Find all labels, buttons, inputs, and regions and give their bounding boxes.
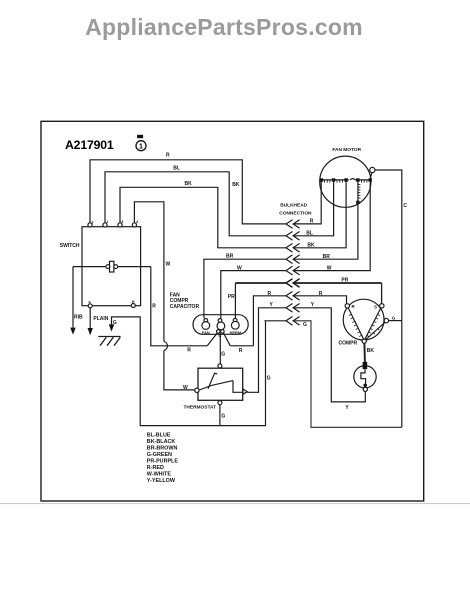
svg-text:R: R (166, 153, 170, 159)
svg-text:R: R (152, 303, 156, 309)
thermostat bottom terminal (218, 401, 222, 405)
wire R1 right: bulkhead to fan motor (293, 181, 321, 224)
svg-text:COMPR: COMPR (339, 340, 358, 346)
wire G: bulkhead left run (264, 320, 286, 322)
svg-text:3: 3 (121, 220, 123, 224)
compressor terminal R (345, 304, 349, 308)
switch bottom terminal F (88, 304, 92, 308)
svg-text:W: W (183, 385, 188, 391)
wire G: thermostat bottom down (219, 405, 221, 426)
svg-text:W: W (166, 261, 171, 267)
svg-text:1: 1 (139, 144, 143, 151)
svg-text:Y: Y (311, 302, 315, 308)
diagram border frame (41, 121, 424, 501)
svg-text:PR: PR (228, 294, 235, 300)
switch bottom terminal H (131, 304, 135, 308)
compressor run winding (348, 308, 363, 339)
wire R: switch element right, down to capacitor common (151, 267, 208, 346)
svg-text:2: 2 (91, 220, 93, 224)
wire PR: capacitor HERM to bulkhead (234, 283, 236, 318)
svg-text:AppliancePartsPros.com: AppliancePartsPros.com (85, 14, 363, 40)
compressor terminal labels (352, 304, 396, 320)
svg-text:C: C (403, 203, 407, 209)
wire W right (293, 181, 370, 271)
switch terminal 4 (132, 223, 136, 227)
svg-text:BK-BLACK: BK-BLACK (147, 439, 176, 445)
switch terminal 2 (88, 223, 92, 227)
wire BK: switch term3 to bulkhead (120, 187, 286, 248)
wire BK right (293, 181, 346, 248)
wire PLAIN: from switch bottom-left terminal down (89, 308, 91, 328)
compressor M2 (343, 299, 384, 340)
svg-text:BK: BK (307, 242, 315, 248)
svg-text:G: G (303, 322, 307, 328)
wire from capacitor common left diagonal (207, 333, 217, 346)
wire BR right (293, 204, 358, 260)
svg-text:BK: BK (367, 348, 375, 354)
thermostat left terminal (195, 388, 199, 392)
svg-text:Y: Y (345, 405, 349, 411)
thermostat right terminal (243, 389, 247, 394)
overload protector OL (354, 366, 376, 388)
svg-text:CONNECTION: CONNECTION (279, 211, 312, 217)
svg-text:G: G (221, 413, 225, 419)
svg-text:C: C (218, 333, 221, 338)
wire G with chassis ground (112, 317, 266, 426)
wire RIB: from switch element left, down (72, 267, 74, 328)
svg-text:G: G (392, 315, 396, 320)
svg-text:R: R (352, 304, 356, 309)
svg-text:FAN: FAN (202, 330, 210, 335)
switch pin numbers (89, 220, 140, 304)
compressor start winding (365, 308, 381, 339)
page separator line (0, 503, 470, 505)
wire Y right to overload (293, 308, 365, 402)
svg-text:R: R (187, 347, 191, 353)
switch terminal 1 (103, 223, 107, 227)
svg-text:H: H (132, 300, 135, 304)
switch interior capacitor element (73, 261, 151, 272)
capacitor C1 (fan/compr) body (193, 315, 248, 335)
colour legend (147, 433, 179, 485)
svg-text:RIB: RIB (74, 314, 83, 320)
fan motor winding taps (dots) (320, 178, 372, 181)
callout balloon 1 (136, 135, 146, 151)
svg-text:BULKHEAD: BULKHEAD (280, 203, 307, 209)
svg-text:G: G (221, 351, 225, 357)
wire BK: compressor to overload (363, 343, 366, 362)
thermostat top terminal (218, 364, 222, 368)
svg-text:R: R (239, 348, 243, 354)
overload element (361, 369, 366, 384)
fan motor main winding (320, 179, 372, 183)
capacitor FAN terminal (204, 319, 208, 323)
svg-text:BK: BK (185, 181, 193, 187)
overload bottom terminal (363, 387, 367, 391)
compressor terminal S (380, 304, 384, 308)
wire BR: bulkhead to capacitor FAN (204, 259, 286, 318)
svg-text:R: R (310, 218, 314, 224)
wire G right: bulkhead down around compressor (293, 321, 402, 428)
svg-text:1: 1 (106, 220, 108, 224)
wire PR right to compressor S (293, 282, 381, 284)
capacitor C terminal (218, 319, 222, 323)
svg-text:PR-PURPLE: PR-PURPLE (147, 459, 179, 465)
svg-text:W: W (237, 266, 242, 272)
compressor C link (366, 322, 385, 339)
thermostat switch element (199, 373, 243, 392)
fan motor M1 (320, 156, 371, 207)
wire W: switch term4 down to thermostat (134, 202, 164, 342)
capacitor HERM terminal (233, 318, 237, 322)
wire hop over R run (164, 341, 168, 350)
svg-text:Y-YELLOW: Y-YELLOW (147, 478, 176, 484)
svg-text:BL: BL (173, 166, 180, 172)
fan motor aux winding (356, 181, 360, 204)
svg-text:PLAIN: PLAIN (93, 316, 108, 322)
switch terminal 3 (118, 223, 122, 227)
compressor terminal C (384, 318, 388, 322)
wire compressor C to net C (389, 320, 402, 322)
wire Y: bulkhead to thermostat right (247, 308, 286, 393)
svg-text:FAN MOTOR: FAN MOTOR (332, 147, 361, 153)
bulkhead connector arrows (286, 220, 300, 325)
svg-text:BL: BL (306, 230, 313, 236)
svg-text:PR: PR (341, 278, 348, 284)
svg-text:4: 4 (136, 220, 139, 224)
svg-text:SWITCH: SWITCH (60, 243, 80, 249)
switch S1 box (82, 227, 141, 306)
svg-text:HERM: HERM (230, 330, 241, 335)
svg-text:THERMOSTAT: THERMOSTAT (184, 404, 217, 410)
svg-text:R: R (319, 291, 323, 297)
svg-text:G: G (267, 376, 271, 382)
svg-text:W: W (327, 266, 332, 272)
svg-text:BR-BROWN: BR-BROWN (147, 446, 178, 452)
label BULKHEAD CONNECTION (279, 203, 312, 217)
svg-text:A217901: A217901 (65, 138, 114, 152)
svg-text:W-WHITE: W-WHITE (147, 472, 172, 478)
svg-text:BR: BR (323, 254, 331, 260)
compressor common junction (362, 339, 366, 343)
wire G capacitor to thermostat (219, 333, 221, 364)
wire BL right (293, 181, 333, 236)
capacitor terminal names (202, 330, 241, 338)
svg-text:S: S (374, 304, 377, 309)
wire R2: bulkhead to capacitor common (253, 296, 286, 346)
svg-text:BK: BK (232, 182, 240, 188)
wire C: fan motor to compressor side (375, 170, 402, 427)
fan motor C terminal (370, 173, 372, 179)
svg-text:R: R (268, 291, 272, 297)
wire from capacitor common right diagonal (223, 333, 230, 346)
thermostat TH box (198, 368, 243, 400)
svg-text:BR: BR (226, 253, 234, 259)
wire R: switch term2 up over to bulkhead (90, 160, 286, 224)
svg-text:G: G (113, 320, 117, 326)
wire R right run under capacitor (230, 345, 253, 347)
wire R2 right to compressor R (293, 296, 346, 304)
wire W: bulkhead to capacitor C (221, 271, 286, 319)
svg-text:CAPACITOR: CAPACITOR (170, 304, 200, 310)
ground symbol (98, 337, 120, 346)
svg-text:G-GREEN: G-GREEN (147, 452, 172, 458)
wire BL: switch term1 to bulkhead (105, 172, 286, 236)
svg-text:R-RED: R-RED (147, 465, 164, 471)
svg-text:BL-BLUE: BL-BLUE (147, 433, 171, 439)
